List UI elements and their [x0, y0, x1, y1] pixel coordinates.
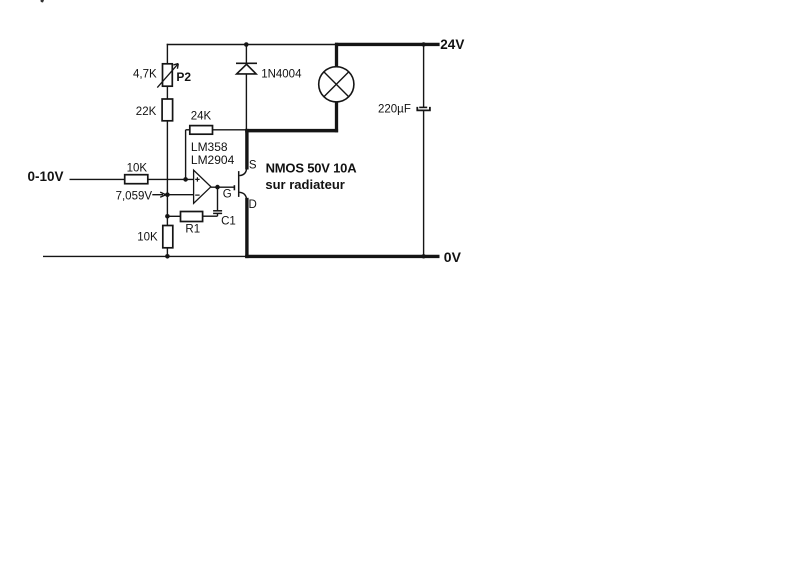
resistor 22K: [162, 99, 173, 121]
capacitor C2 220uF: [417, 44, 430, 256]
node divider 0V junction: [165, 254, 170, 259]
wire 24K left: [186, 129, 190, 131]
svg-text:R1: R1: [185, 224, 200, 236]
node 7,059V junction: [165, 192, 170, 197]
svg-text:1N4004: 1N4004: [261, 68, 302, 80]
svg-text:10K: 10K: [137, 231, 158, 243]
wire R1 left: [167, 215, 180, 217]
wire divider middle: [166, 121, 168, 226]
wire 0V rail thin segment: [43, 255, 247, 257]
op-amp U1: [194, 170, 211, 203]
svg-text:S: S: [249, 160, 257, 172]
thick wire lamp top: [335, 43, 338, 68]
capacitor C1: [213, 211, 222, 216]
resistor 24K: [190, 126, 213, 135]
svg-text:0-10V: 0-10V: [28, 169, 64, 184]
wire input right: [148, 178, 194, 180]
thick wire source node horizontal: [245, 129, 338, 133]
svg-text:24K: 24K: [191, 111, 212, 123]
svg-text:C1: C1: [221, 216, 236, 228]
svg-text:D: D: [249, 199, 257, 211]
thick wire lamp bottom: [335, 101, 338, 132]
svg-text:P2: P2: [176, 70, 191, 84]
wire feedback vertical: [185, 130, 187, 180]
wire C1 branch vertical: [217, 187, 219, 211]
node R1 tap junction: [165, 214, 170, 219]
node output junction: [215, 185, 220, 190]
svg-text:24V: 24V: [440, 37, 464, 52]
wire 0V rail thick segment: [245, 255, 439, 258]
svg-text:7,059V: 7,059V: [116, 190, 153, 202]
svg-text:4,7K: 4,7K: [133, 68, 157, 80]
node feedback junction: [183, 177, 188, 182]
svg-text:220µF: 220µF: [378, 104, 411, 116]
arrow 7,059V pointer: [152, 192, 166, 197]
svg-text:NMOS 50V 10A: NMOS 50V 10A: [266, 161, 358, 176]
potentiometer P2: [157, 64, 178, 88]
diode 1N4004: [236, 63, 257, 74]
resistor R1: [181, 212, 203, 222]
transistor Q1 NMOS: [234, 169, 246, 200]
resistor 10K input: [125, 175, 148, 184]
svg-text:sur radiateur: sur radiateur: [265, 177, 344, 192]
wire 24K right: [213, 129, 246, 131]
wire diode bottom: [245, 75, 247, 130]
node diode top junction: [244, 42, 249, 47]
thick wire drain lead: [245, 198, 248, 258]
wire input left: [70, 178, 125, 180]
lamp L1: [319, 67, 354, 102]
wire 24V rail thin segment: [167, 44, 336, 46]
thick wire source lead: [245, 129, 248, 170]
svg-text:0V: 0V: [444, 249, 462, 265]
wire divider top: [166, 44, 168, 64]
wire 10K lower to 0V: [166, 248, 168, 256]
svg-text:LM358: LM358: [191, 140, 228, 154]
wire 24V rail thick segment: [335, 43, 440, 46]
svg-text:LM2904: LM2904: [191, 153, 235, 167]
node capacitor top junction: [421, 42, 425, 46]
wire minus input: [167, 194, 193, 196]
wire pot to 22K: [166, 86, 168, 99]
svg-text:G: G: [223, 189, 232, 201]
stray mark top-left: [41, 0, 45, 3]
wire R1 right: [203, 215, 218, 217]
svg-text:22K: 22K: [136, 106, 157, 118]
svg-text:10K: 10K: [127, 162, 148, 174]
node capacitor bottom junction: [421, 254, 425, 258]
resistor 10K lower: [163, 226, 173, 248]
wire output to gate: [211, 186, 235, 188]
wire diode top: [245, 45, 247, 64]
